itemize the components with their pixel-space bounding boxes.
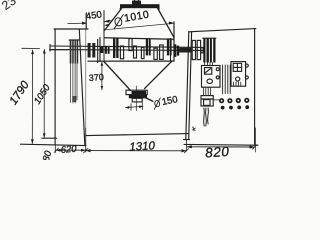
shaft upper line: [50, 46, 204, 47]
bar below shaft D: [134, 46, 137, 58]
discharge centerline: [135, 86, 137, 111]
right bearing legs: [205, 63, 213, 66]
dim chain slash ticks: [54, 145, 256, 153]
vessel right edge / extension line: [173, 22, 175, 61]
top manhole cap: [132, 0, 141, 5]
cabinet left edge outer: [186, 32, 189, 140]
base frame line: [86, 134, 188, 136]
dim 450 left arrow: [68, 22, 86, 25]
bearing centerline ext: [85, 13, 87, 151]
svg-text:1310: 1310: [129, 140, 156, 153]
dim 1050 line: [43, 49, 45, 137]
phi150 phi symbol: [154, 98, 160, 110]
dim 450/1010 shared arrow: [105, 20, 113, 23]
cone lower-left slope: [104, 62, 131, 91]
bar above shaft C: [129, 39, 132, 51]
cabinet left edge inner: [189, 32, 192, 140]
dim 1790 line: [31, 50, 33, 144]
left bearing block: [70, 40, 79, 64]
ground line left: [21, 144, 87, 145]
small mark near cabinet foot: [192, 127, 195, 131]
bar below shaft G: [154, 48, 157, 59]
svg-text:370: 370: [88, 72, 104, 83]
vessel left edge / extension line: [103, 11, 105, 62]
shaft flange pair dark I: [167, 38, 169, 55]
cone upper-right slope: [158, 8, 175, 38]
panel box 1: [202, 66, 221, 88]
left bearing top line: [69, 39, 79, 41]
hub at left vessel edge: [105, 46, 107, 54]
vessel right inner edge: [170, 39, 172, 61]
cabinet left foot: [184, 139, 190, 141]
band top line: [104, 38, 174, 39]
right coupling bars: [192, 40, 195, 59]
packing gland at left vessel edge: [100, 47, 103, 53]
right bearing block: [203, 38, 215, 62]
shaft flange pair dark F: [146, 38, 148, 55]
dim 1310: [86, 150, 187, 152]
left support left edge: [54, 29, 56, 144]
bar below shaft E: [141, 47, 144, 58]
louver box: [201, 96, 213, 106]
phi150 leader: [140, 95, 153, 101]
right trunnion blocks: [174, 44, 177, 57]
knob connector line: [213, 99, 219, 101]
ground line right: [184, 143, 258, 146]
svg-text:450: 450: [85, 9, 102, 22]
circles right of box2: [245, 64, 248, 67]
bar below shaft H: [160, 45, 164, 59]
legs in box2: [234, 82, 241, 86]
dim 1010 phi symbol: [114, 15, 123, 30]
cabinet top edge: [189, 29, 256, 32]
box1 circles: [216, 68, 219, 71]
dim 370 line: [101, 62, 103, 90]
dim 820: [187, 146, 254, 148]
cabinet right edge: [254, 29, 256, 146]
shaft left end cap: [49, 45, 51, 51]
discharge flange bottom dark: [129, 95, 147, 99]
shaft heavy segment: [179, 48, 192, 53]
bar below shaft B: [120, 46, 123, 59]
panel box 2: [231, 62, 246, 87]
vent slats: [223, 65, 231, 93]
stuffing box plate: [97, 40, 99, 63]
knob row 1: [219, 98, 249, 104]
left support top plate: [54, 28, 88, 30]
left support right edge: [79, 29, 85, 145]
dim 1010 small arrow: [104, 24, 109, 27]
svg-text:820: 820: [205, 144, 230, 160]
dim 450 left ext line: [85, 13, 87, 30]
cone upper-left slope: [104, 9, 122, 32]
dim 1010 right arrow: [169, 22, 174, 25]
coupling left pair: [88, 43, 91, 58]
small cross piece: [201, 48, 203, 53]
legs under box1: [204, 87, 211, 95]
knob row 2: [221, 105, 249, 109]
rod bottom nuts: [72, 96, 76, 102]
switch square in box1: [205, 68, 212, 75]
discharge valve body: [132, 98, 142, 102]
dim under discharge: [126, 103, 144, 111]
svg-text:620: 620: [60, 144, 77, 156]
dim 1010 line: [104, 23, 173, 30]
shaft stub lines: [50, 49, 69, 51]
band bottom line: [88, 60, 174, 62]
ext line at bearing axis bottom: [85, 128, 87, 152]
top flange: [120, 4, 160, 10]
discharge flange top: [126, 90, 147, 94]
plinth line: [42, 137, 57, 139]
dim 620: [56, 149, 85, 151]
cone lower-right slope: [145, 61, 173, 89]
dim 1790 top tick: [22, 47, 40, 49]
cable squiggles: [204, 108, 209, 126]
grid window in box2: [233, 63, 241, 71]
left bearing tie rods: [71, 64, 77, 104]
shaft flange pair dark A: [113, 39, 115, 59]
shaft lower line: [50, 49, 204, 52]
vessel left inner edge: [99, 38, 101, 62]
